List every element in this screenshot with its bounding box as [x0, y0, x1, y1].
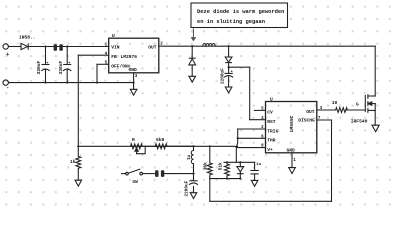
- svg-text:R: R: [132, 137, 135, 143]
- svg-text:LM555C: LM555C: [289, 115, 295, 132]
- svg-text:6k8: 6k8: [156, 137, 165, 143]
- svg-text:SW: SW: [132, 179, 138, 185]
- svg-text:1N58..: 1N58..: [19, 35, 36, 41]
- svg-text:IRF540: IRF540: [351, 119, 368, 125]
- svg-text:1k: 1k: [70, 159, 76, 165]
- svg-text:330uF: 330uF: [58, 60, 64, 74]
- svg-text:1u: 1u: [256, 163, 261, 167]
- svg-text:en in sluiting gegaan: en in sluiting gegaan: [197, 19, 265, 25]
- svg-text:10: 10: [332, 100, 338, 106]
- svg-text:V+: V+: [267, 147, 273, 153]
- svg-text:GND: GND: [287, 148, 296, 154]
- svg-text:CV: CV: [267, 110, 273, 116]
- svg-text:VIN: VIN: [111, 44, 120, 50]
- svg-text:Deze diode is warm geworden: Deze diode is warm geworden: [197, 9, 284, 15]
- svg-text:RST: RST: [267, 119, 276, 125]
- svg-text:OUT: OUT: [306, 109, 315, 115]
- svg-text:U: U: [270, 97, 273, 103]
- svg-text:330uF: 330uF: [36, 60, 42, 74]
- svg-text:51k: 51k: [219, 162, 224, 170]
- svg-text:TRIG: TRIG: [267, 128, 278, 134]
- svg-text:1u: 1u: [187, 154, 192, 160]
- svg-text:THR: THR: [267, 138, 276, 144]
- svg-text:DISCHG: DISCHG: [298, 117, 315, 123]
- svg-text:36k: 36k: [203, 162, 208, 170]
- svg-text:2200uF: 2200uF: [220, 68, 225, 84]
- svg-text:-: -: [6, 84, 9, 91]
- svg-text:OUT: OUT: [148, 44, 157, 50]
- svg-text:GND: GND: [129, 67, 138, 73]
- svg-text:2200uF: 2200uF: [184, 180, 189, 196]
- svg-text:G: G: [356, 101, 359, 107]
- svg-text:LM2576: LM2576: [121, 54, 138, 60]
- svg-text:U: U: [112, 33, 115, 39]
- svg-text:FB: FB: [111, 54, 117, 60]
